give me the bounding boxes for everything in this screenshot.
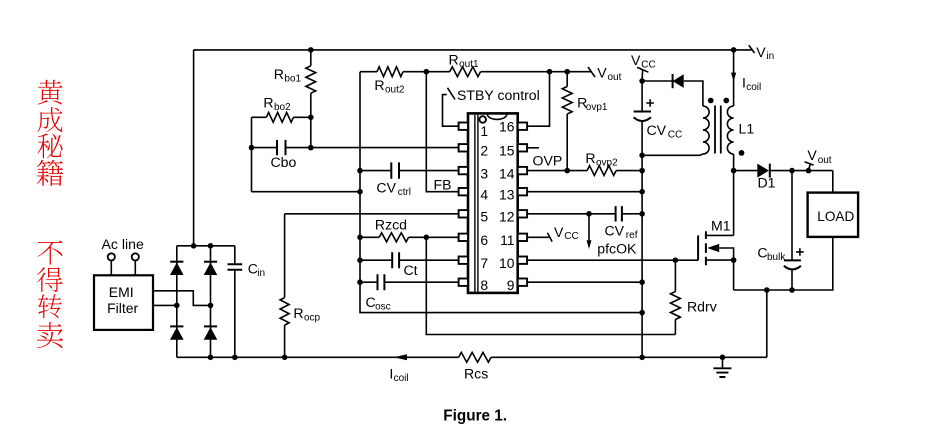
svg-text:M1: M1 — [711, 218, 731, 234]
node: Cbo left junction — [249, 145, 255, 151]
node: Rdrv top junction — [673, 257, 679, 263]
IC pin 13 stub — [518, 188, 527, 195]
diode D1 (boost diode, pointing right) — [757, 164, 769, 178]
wire: aux winding top to Vcc diode — [684, 81, 703, 106]
wire: STBY control to pin 1 — [443, 95, 459, 127]
node: CVref right junction — [639, 211, 645, 217]
svg-text:R: R — [449, 52, 459, 68]
wire: Rocp to pin 5 — [285, 213, 459, 215]
svg-text:R: R — [263, 95, 273, 111]
svg-text:2: 2 — [480, 143, 488, 159]
wire: drop to ground rail — [766, 290, 768, 357]
IC pin 8 stub — [459, 279, 468, 286]
svg-text:bo2: bo2 — [274, 102, 291, 113]
svg-text:3: 3 — [480, 165, 488, 181]
node: Ct left junction — [357, 257, 363, 263]
svg-text:1: 1 — [480, 123, 488, 139]
wire: pin 16 riser — [527, 72, 549, 127]
IC pin 15 stub — [518, 144, 527, 151]
svg-text:bulk: bulk — [767, 252, 786, 263]
svg-text:R: R — [293, 305, 303, 321]
svg-text:7: 7 — [480, 255, 488, 271]
EMI Filter box — [94, 275, 153, 330]
Icoil arrow (top, pointing down) — [731, 73, 736, 82]
svg-text:5: 5 — [480, 209, 488, 225]
wire: AC terminals to EMI filter — [111, 261, 135, 276]
svg-text:OVP: OVP — [533, 153, 563, 169]
IC pin 12 stub — [518, 210, 527, 217]
wire: bridge right leg — [210, 246, 212, 357]
resistor Rdrv — [674, 260, 676, 291]
wire: ZCD lower link (Rzcd right leg down, across to Rdrv bottom) — [426, 237, 675, 334]
Vout supply tap (top) — [588, 67, 595, 77]
node: output node / Cbulk — [789, 168, 795, 174]
wire: pin 15 open stub — [527, 147, 539, 149]
svg-text:10: 10 — [499, 255, 515, 271]
svg-text:6: 6 — [480, 232, 488, 248]
bridge diode left upper — [170, 263, 184, 276]
node: switch node / D1 junction — [731, 168, 737, 174]
node: ground tap junction — [720, 355, 726, 361]
svg-text:R: R — [274, 66, 284, 82]
svg-text:V: V — [554, 224, 564, 240]
resistor Rbo1 — [310, 50, 312, 66]
svg-text:15: 15 — [499, 143, 515, 159]
svg-text:CC: CC — [641, 59, 655, 70]
svg-text:ctrl: ctrl — [398, 187, 411, 198]
svg-text:FB: FB — [434, 176, 452, 192]
wire: CVcc bottom to aux return — [641, 122, 643, 155]
resistor Rbo2 — [252, 116, 267, 118]
svg-text:CV: CV — [605, 223, 625, 239]
wire: top rail (Vin line) — [194, 49, 752, 51]
wire: diode to Vcc node — [642, 80, 673, 82]
inductor/transformer L1 : main winding — [727, 106, 733, 154]
resistor Rout2 — [377, 67, 403, 77]
VCC supply tap (top) — [637, 67, 648, 72]
svg-text:ocp: ocp — [304, 313, 321, 324]
svg-text:Rzcd: Rzcd — [375, 217, 407, 233]
svg-text:V: V — [807, 147, 817, 163]
IC pin 2 stub — [459, 144, 468, 151]
resistor Rout1 — [450, 67, 481, 77]
svg-text:14: 14 — [499, 165, 515, 181]
resistor Rocp — [284, 214, 286, 298]
svg-text:CC: CC — [564, 231, 578, 242]
svg-text:coil: coil — [746, 82, 761, 93]
svg-text:ovp1: ovp1 — [586, 102, 608, 113]
IC pin-1 indicator circle — [479, 116, 486, 123]
op-amp U1: PFC controller IC body (16-pin DIP) — [468, 113, 518, 293]
IC pin 10 stub — [518, 257, 527, 264]
svg-text:in: in — [766, 51, 774, 62]
wire: VCC tap down to diode node — [641, 70, 644, 111]
wire: pin 13 to right rail — [527, 191, 642, 193]
AC terminal circles — [108, 253, 115, 260]
IC pin 3 stub — [459, 167, 468, 174]
svg-text:out: out — [608, 72, 622, 83]
svg-text:4: 4 — [480, 187, 488, 203]
svg-text:in: in — [257, 268, 265, 279]
node: Rocp bottom junction — [282, 355, 288, 361]
svg-text:CV: CV — [376, 180, 396, 196]
svg-text:LOAD: LOAD — [817, 209, 854, 224]
node: bridge right leg top junction — [208, 243, 214, 249]
node: Cbulk bottom junction — [789, 287, 795, 293]
node: Rzcd right junction — [424, 235, 430, 241]
wire: D1 to output node — [770, 170, 833, 172]
wire: rail2 FB divider tap down to pin 4 — [426, 72, 458, 192]
STBY switch lever — [448, 88, 456, 100]
watermark character 秘 — [37, 134, 62, 159]
resistor Rzcd — [360, 236, 379, 238]
node: Vout tap junction — [806, 168, 812, 174]
transformer L1 : core lines — [715, 106, 721, 154]
node: Rovp1 bottom / pin14 junction — [564, 168, 570, 174]
node: junction dot top rail / Rbo1 — [308, 47, 314, 53]
svg-text:STBY control: STBY control — [457, 87, 540, 103]
LOAD box — [808, 193, 859, 237]
Vout supply tap (right) — [805, 162, 814, 171]
svg-text:out2: out2 — [385, 85, 405, 96]
node: link to rail1 — [357, 189, 363, 195]
wire: bridge top rail to Cin — [177, 245, 235, 247]
wire: left rail1 (Rout2 left leg down and across to right rail) — [360, 72, 642, 313]
wire: pin 9 to right rail — [527, 281, 642, 283]
node: Rovp1 junction — [564, 69, 570, 75]
node: junction dot Vin / L1 — [731, 47, 737, 53]
capacitor Cbo — [251, 117, 253, 191]
watermark character 黄 — [37, 80, 62, 105]
Vin supply tap symbol — [749, 45, 755, 53]
svg-text:Cbo: Cbo — [271, 154, 297, 170]
node: Cosc left junction — [357, 279, 363, 285]
wire: right vertical rail (Vcc node down to ground rail) — [641, 155, 643, 357]
svg-text:Rcs: Rcs — [464, 366, 488, 382]
node: Rbo1/Rbo2 junction — [308, 115, 314, 121]
svg-text:9: 9 — [507, 277, 515, 293]
transformer phase dot aux (top) — [708, 98, 714, 104]
node: right leg mid junction — [208, 303, 214, 309]
IC pin 7 stub — [459, 257, 468, 264]
wire: pin 11 VCC tap — [527, 236, 549, 238]
wire: pin2 line from Cbo network to IC pin 2 — [311, 147, 459, 149]
M1 drain tap — [706, 234, 734, 236]
capacitor CVref — [616, 206, 622, 221]
svg-text:CV: CV — [647, 122, 667, 138]
node: bridge right leg bottom junction — [208, 355, 214, 361]
capacitor Ct — [360, 259, 392, 261]
wire: pin 12 to CVref — [527, 213, 615, 215]
svg-text:bo1: bo1 — [284, 74, 301, 85]
svg-text:16: 16 — [499, 118, 515, 134]
svg-text:ovp2: ovp2 — [596, 158, 618, 169]
node: left leg mid junction — [174, 303, 180, 309]
pfcOK arrow (down) — [588, 214, 590, 241]
svg-text:12: 12 — [499, 209, 515, 225]
wire: Cbo bottom link to left rail — [252, 191, 361, 193]
wire: EMI lower output to left bridge leg — [153, 304, 177, 306]
wire: bottom ground rail — [177, 356, 767, 358]
wire: switch node to D1 — [734, 170, 758, 172]
bridge diode right lower — [204, 327, 218, 340]
transformer L1 : auxiliary winding — [703, 106, 709, 154]
bridge diode right upper — [204, 263, 218, 276]
svg-text:Filter: Filter — [107, 300, 138, 316]
capacitor CVcc (electrolytic) — [634, 111, 651, 113]
Icoil arrow (bottom, pointing left) — [394, 354, 407, 360]
wire: feedback top line y=71.7 — [360, 71, 377, 73]
node: pfcOK arrow junction — [586, 211, 592, 217]
IC notch — [487, 114, 506, 119]
wire: outer left rail from top rail down to bridge — [193, 50, 195, 246]
IC pin 9 stub — [518, 279, 527, 286]
svg-text:V: V — [756, 44, 766, 60]
IC pin 16 stub — [518, 123, 527, 130]
svg-text:coil: coil — [394, 373, 409, 384]
wire: switch node vertical (L1 bottom to drain) — [733, 154, 735, 235]
svg-text:13: 13 — [499, 187, 515, 203]
transformer phase dot main (bottom) — [739, 150, 745, 156]
IC inner double lines — [475, 115, 478, 292]
transformer phase dot main (top) — [723, 98, 729, 104]
node: Rzcd left junction — [357, 235, 363, 241]
svg-text:Ct: Ct — [404, 262, 418, 278]
wire: Vin vertical down to L1 — [733, 50, 735, 106]
svg-text:D1: D1 — [758, 175, 776, 191]
watermark character 卖 — [37, 322, 63, 348]
svg-text:out1: out1 — [459, 59, 479, 70]
node: top rail to outer rail junction — [191, 243, 197, 249]
IC pin 1 stub — [459, 123, 468, 130]
capacitor Cbulk (electrolytic) — [791, 171, 793, 261]
resistor Rovp1 — [566, 72, 568, 87]
node: Cin bottom junction — [232, 355, 238, 361]
ground symbol — [722, 357, 724, 368]
node: aux return junction — [639, 153, 645, 159]
wire: aux winding bottom return — [642, 154, 703, 155]
svg-text:V: V — [631, 52, 641, 68]
wire: output to LOAD — [832, 171, 834, 193]
node: Rout2/Rout1/FB junction — [424, 69, 430, 75]
wire: pin 10 gate drive to M1 — [527, 259, 698, 261]
node: Cbo right junction — [308, 145, 314, 151]
capacitor Cin — [234, 246, 236, 264]
wire: EMI upper output with jog to right bridge leg — [153, 291, 211, 306]
red watermark text column 1: 黄成秘籍 ; column 2: 不得转卖 — [37, 80, 64, 348]
bridge diode left lower — [170, 327, 184, 340]
wire: pin 14 to Rovp2 — [527, 170, 587, 172]
svg-text:V: V — [597, 64, 607, 80]
node: return rail drop junction — [764, 287, 770, 293]
capacitor CVctrl — [360, 170, 391, 172]
capacitor Cosc — [360, 281, 377, 283]
node: right rail bottom junction — [639, 355, 645, 361]
node: pin9 junction — [639, 279, 645, 285]
M1 body arrow — [707, 244, 719, 252]
IC pin 6 stub — [459, 234, 468, 241]
svg-text:EMI: EMI — [109, 284, 134, 300]
M1 source tap — [706, 259, 734, 261]
resistor Rovp2 — [587, 166, 616, 176]
node: Rovp2 right junction — [639, 168, 645, 174]
svg-text:osc: osc — [375, 302, 391, 313]
watermark character 成 — [37, 107, 62, 132]
IC pin 4 stub — [459, 188, 468, 195]
resistor Rcs — [459, 352, 491, 362]
wire: bridge left leg — [176, 246, 178, 357]
svg-text:Rdrv: Rdrv — [687, 299, 717, 315]
node: pin13 junction — [639, 189, 645, 195]
IC pin 14 stub — [518, 167, 527, 174]
svg-text:R: R — [374, 77, 384, 93]
svg-text:Figure 1.: Figure 1. — [443, 408, 507, 425]
node: CVctrl left junction — [357, 168, 363, 174]
M1 channel dashes — [705, 231, 707, 265]
svg-text:out: out — [818, 155, 832, 166]
node: Vcc diode junction — [639, 78, 645, 84]
node: pin16 riser junction — [547, 69, 553, 75]
svg-text:CC: CC — [668, 129, 682, 140]
svg-text:11: 11 — [500, 232, 515, 248]
svg-text:R: R — [585, 150, 595, 166]
svg-text:L1: L1 — [739, 121, 755, 137]
svg-text:Ac line: Ac line — [102, 236, 144, 252]
watermark character 不 — [38, 240, 63, 264]
transistor M1 (N-MOSFET) gate bar — [697, 235, 699, 260]
IC pin 5 stub — [459, 210, 468, 217]
svg-text:pfcOK: pfcOK — [597, 240, 637, 256]
node: M1 source junction — [731, 257, 737, 263]
watermark character 得 — [37, 267, 63, 292]
watermark character 转 — [38, 294, 62, 318]
wire: M1 source down to output return — [733, 260, 735, 290]
diode D2 (Vcc charge diode, pointing left) — [673, 74, 684, 88]
wire: LOAD bottom return — [734, 237, 833, 290]
node: rail1 to right rail junction — [639, 310, 645, 316]
watermark character 籍 — [37, 160, 64, 186]
svg-text:8: 8 — [480, 277, 488, 293]
IC pin 11 stub — [518, 234, 527, 241]
